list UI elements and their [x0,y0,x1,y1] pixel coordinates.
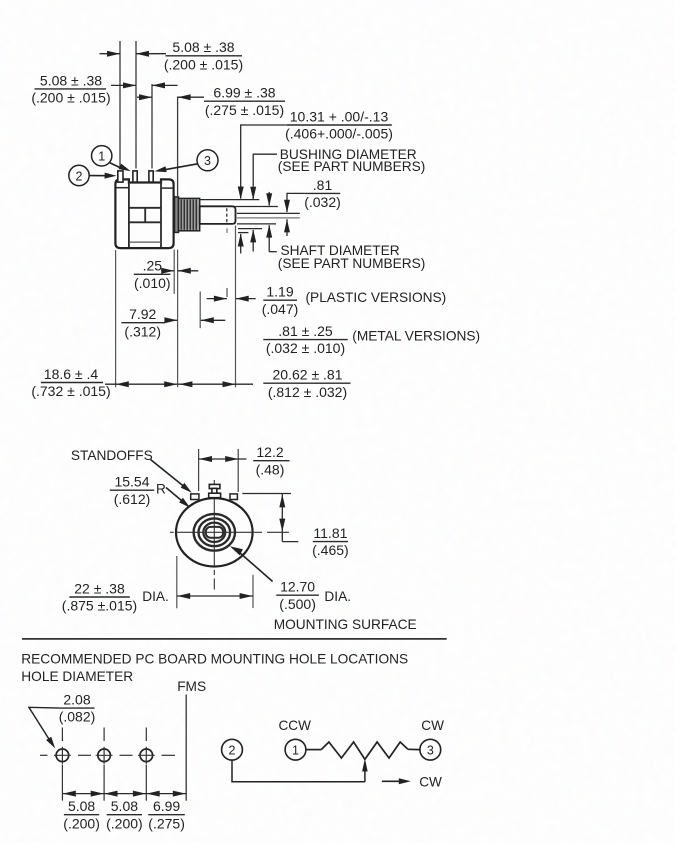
anti-rotation lug waist [212,488,217,493]
svg-text:3: 3 [204,154,211,168]
wire terminal 1 lead [306,749,321,751]
wire terminal 2 to wiper [232,760,365,782]
wire leader 10.31 [241,124,287,126]
wire bushing top extension line A [200,199,259,201]
body bottom inset line [129,241,161,243]
svg-text:(.032 ± .010): (.032 ± .010) [266,340,345,356]
svg-text:(.047): (.047) [262,301,299,317]
rotation direction arrow CW [382,780,403,782]
svg-text:(.48): (.48) [256,461,285,477]
svg-text:.81 ± .25: .81 ± .25 [278,323,333,339]
svg-text:(SEE PART NUMBERS): (SEE PART NUMBERS) [278,256,426,271]
bushing shoulder [175,197,179,233]
svg-text:5.08: 5.08 [68,798,95,814]
svg-text:2: 2 [76,169,83,183]
wire leader bushing diameter [253,153,277,155]
wire dimension line 5.08 left [111,84,136,86]
thread line 1 [180,199,182,229]
wire dimension line 6.99 hole 3 to FMS [146,793,186,795]
svg-text:FMS: FMS [177,679,206,694]
wire dimension line 18.6 [105,383,178,385]
front view bushing circle [194,514,235,551]
wire leader callout 3 [162,164,198,170]
body middle band lower line [129,221,161,223]
wire leader 15.54 R [166,488,185,504]
standoff left [191,494,199,500]
svg-text:(PLASTIC VERSIONS): (PLASTIC VERSIONS) [306,290,447,305]
svg-text:15.54: 15.54 [114,474,149,490]
body left cap line [128,181,130,248]
svg-text:(.500): (.500) [279,596,316,612]
svg-text:5.08: 5.08 [111,798,138,814]
wire slot line extension below [226,288,228,297]
svg-text:CCW: CCW [278,718,311,733]
wire body right edge extension [173,250,175,294]
svg-text:10.31 + .00/-.13: 10.31 + .00/-.13 [290,108,389,124]
svg-text:(.010): (.010) [134,275,171,291]
wire terminal 3 lead [408,748,420,750]
front view shaft circle inner [203,523,225,542]
wire dimension line 1.19 [207,298,227,300]
body right cap line [160,181,162,248]
wire dimension line 12.2 [199,458,247,460]
wire leader callout 1 [109,163,124,170]
wire leader 10.31 lower arrow [240,234,242,254]
svg-text:(.612): (.612) [114,491,151,507]
wire extension 12.2 right [237,449,239,492]
wire dimension line 11.81 [281,494,283,542]
pin 1 (middle terminal) [133,171,137,182]
svg-text:22 ± .38: 22 ± .38 [74,580,125,596]
wire 10.31 bottom extension line F2 [238,232,248,234]
bushing threads [179,198,200,230]
svg-text:5.08 ± .38: 5.08 ± .38 [172,39,234,55]
svg-text:STANDOFFS: STANDOFFS [71,448,153,463]
wire leader 12.70 [236,550,273,582]
svg-text:DIA.: DIA. [324,589,351,604]
wire leader standoffs [151,460,187,489]
wire dimension line 7.92 [165,319,177,321]
wire shaft end extension long [235,226,237,388]
svg-text:3: 3 [427,744,434,758]
svg-text:(.812 ± .032): (.812 ± .032) [268,384,347,400]
wire dimension line 20.62 [178,383,253,385]
wire hole 2 vertical centerline [103,728,105,742]
thread line 6 [195,199,197,229]
wire mounting face extension long [177,250,179,388]
wire slot top extension line C [237,212,300,214]
body left cap shoulder [116,187,128,189]
front view body circle [176,498,253,566]
body middle band divider [144,208,146,223]
svg-text:MOUNTING SURFACE: MOUNTING SURFACE [274,617,417,632]
svg-text:7.92: 7.92 [129,306,156,322]
svg-text:1: 1 [292,744,299,758]
wire leader .81 [287,192,305,194]
svg-text:(.732 ± .015): (.732 ± .015) [31,383,110,399]
wire extension line pin3 center [151,84,153,169]
callout circle 1 [92,146,112,166]
pin 3 (right terminal) [149,171,153,182]
wire shaft top extension line B [236,206,278,208]
callout circle 3 [197,150,218,171]
wire bushing bottom extension line F [238,228,262,230]
svg-text:2: 2 [229,744,236,758]
terminal 2 circle [222,739,243,760]
wire leader bushing diameter lower arrow [252,230,254,252]
wire extension line pin1 center [119,41,121,169]
svg-text:(.200): (.200) [106,815,143,831]
svg-text:20.62 ± .81: 20.62 ± .81 [273,367,343,383]
mounting hole 3 [140,749,153,762]
wire leader shaft diameter upper arrow [268,192,270,206]
svg-text:5.08 ± .38: 5.08 ± .38 [40,72,102,88]
svg-text:(.406+.000/-.005): (.406+.000/-.005) [285,126,393,142]
svg-text:(.032): (.032) [304,194,341,210]
svg-text:(.275 ± .015): (.275 ± .015) [205,102,284,118]
wire leader shaft diameter lower arrow [268,225,270,252]
shaft [200,206,236,224]
wire dimension line 5.08 holes 1-2 [62,793,104,795]
anti-rotation lug top bar [209,484,220,488]
separator line [22,638,447,640]
mounting hole 1 [56,749,69,762]
pin 2 (left terminal) [118,171,123,182]
wire extension standoff top [242,493,291,495]
wire dimension line 22 [177,595,253,597]
svg-text:.25: .25 [143,258,163,274]
wire leader callout 2 [90,175,110,177]
front view shaft circle [199,518,231,546]
svg-text:(METAL VERSIONS): (METAL VERSIONS) [352,328,480,343]
svg-text:12.2: 12.2 [256,444,283,460]
svg-text:(.875 ±.015): (.875 ±.015) [62,598,137,614]
body middle band upper line [129,207,161,209]
wire shaft bottom extension line E [237,223,276,225]
svg-text:DIA.: DIA. [142,589,169,604]
thread line 2 [183,199,185,229]
wire dimension line 5.08 holes 2-3 [104,793,146,795]
front view horizontal centerline [177,531,253,533]
svg-text:(.082): (.082) [59,709,96,725]
anti-rotation lug base [209,493,221,498]
wire dimension line 6.99 [137,96,152,98]
svg-text:(.465): (.465) [312,542,349,558]
svg-text:6.99: 6.99 [153,798,180,814]
svg-text:18.6 ± .4: 18.6 ± .4 [44,366,99,382]
resistor element zigzag [321,742,408,759]
wire hole 1 vertical centerline [61,728,63,742]
svg-text:(.275): (.275) [148,815,185,831]
svg-text:11.81: 11.81 [313,525,347,541]
wire leader .81 lower arrow [286,219,288,236]
wire extension 12.2 left [198,449,200,491]
wire FMS line [185,695,187,801]
wire hole 3 vertical centerline [145,728,147,742]
mounting hole 2 [98,749,111,762]
wire extension 22 right [252,575,254,608]
svg-text:(SEE PART NUMBERS): (SEE PART NUMBERS) [278,159,426,174]
body right cap shoulder [162,187,173,189]
thread line 5 [192,199,194,229]
shaft slot depth dashed line [226,208,228,222]
svg-text:(.312): (.312) [124,323,161,339]
wire extension line bushing face [177,97,179,197]
wire hole centerline dashes [40,754,48,756]
svg-text:1: 1 [98,150,105,164]
svg-text:CW: CW [421,718,444,733]
wire leader hole diameter [29,707,60,741]
svg-text:2.08: 2.08 [63,692,90,708]
thread line 3 [186,199,188,229]
svg-text:1.19: 1.19 [266,284,293,300]
svg-text:6.99 ± .38: 6.99 ± .38 [213,85,275,101]
svg-text:.81: .81 [313,177,333,193]
wire body left edge extension [115,250,117,387]
wire shaft start extension [199,292,201,329]
terminal 3 circle [420,739,441,760]
terminal 1 circle [285,739,306,760]
wiper arrow [362,759,368,772]
front view vertical centerline [213,499,215,567]
svg-text:HOLE DIAMETER: HOLE DIAMETER [21,669,133,684]
wire extension 22 left [176,556,178,608]
svg-text:RECOMMENDED PC BOARD MOUNTING: RECOMMENDED PC BOARD MOUNTING HOLE LOCAT… [21,652,408,667]
svg-text:R: R [156,481,166,496]
svg-text:(.200): (.200) [63,815,100,831]
callout circle 2 [69,165,89,185]
wire slot bottom extension line D [237,217,300,219]
potentiometer body outline [115,179,173,248]
svg-text:(.200 ± .015): (.200 ± .015) [31,90,110,106]
standoff right [230,494,237,500]
wire dimension line 5.08 top [100,53,121,55]
svg-text:12.70: 12.70 [280,579,315,595]
front view slot [206,527,223,538]
wire extension line pin2 center [135,41,137,169]
thread line 4 [189,199,191,229]
wire dimension line .25 [170,270,174,272]
svg-text:CW: CW [419,774,442,789]
svg-text:(.200 ± .015): (.200 ± .015) [164,56,243,72]
